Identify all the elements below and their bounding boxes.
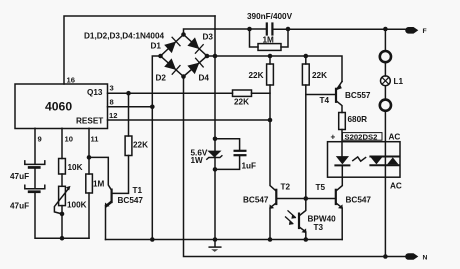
svg-text:1uF: 1uF: [242, 162, 257, 171]
resistor 10K: [59, 159, 66, 175]
LED in opto: [335, 156, 349, 165]
node cap right: [286, 27, 291, 32]
svg-text:12: 12: [109, 111, 117, 120]
transistor T2 BC547: [269, 190, 276, 240]
capacitor 390nF plates: [267, 24, 273, 35]
node gnd bridgeleft: [150, 237, 155, 242]
wire pin 11 to 1M: [88, 128, 90, 174]
svg-text:D3: D3: [203, 33, 214, 42]
node bridge right: [205, 54, 210, 59]
node pin11: [87, 155, 92, 160]
diode D3: [187, 37, 203, 53]
node pin8 junction: [150, 105, 155, 110]
wire VCC vertical to + rail and zener chain: [214, 16, 216, 240]
svg-text:T1: T1: [133, 186, 143, 195]
wire connector to lamp: [384, 63, 386, 77]
svg-text:1M: 1M: [263, 36, 275, 45]
svg-text:3: 3: [110, 84, 114, 93]
svg-text:Q13: Q13: [87, 88, 103, 97]
svg-text:T3: T3: [314, 223, 324, 232]
svg-text:390nF/400V: 390nF/400V: [247, 12, 293, 21]
svg-text:BC547: BC547: [118, 196, 144, 205]
wire pin 8: [108, 106, 153, 108]
wire T1 emitter riser: [106, 203, 112, 240]
ground bus right: [106, 239, 343, 241]
wire 1uF bottom jog: [215, 156, 240, 169]
wire pin 12: [108, 119, 271, 121]
resistor 1M parallel loop: [250, 29, 289, 47]
diode D2: [164, 58, 180, 74]
resistor 22K horizontal box: [233, 90, 252, 96]
svg-text:F: F: [423, 28, 427, 35]
capacitor 47uF no1: [25, 161, 45, 169]
resistor 22K vertical 2: [299, 56, 309, 216]
capacitor 47uF no2: [25, 185, 45, 193]
svg-text:T5: T5: [316, 183, 326, 192]
svg-text:10: 10: [65, 135, 73, 144]
phototransistor T3 BPW40: [286, 211, 307, 240]
wire pin 9: [34, 128, 36, 164]
node pin12 junction: [268, 118, 273, 123]
opto squiggle: [353, 157, 366, 161]
wire base T2-T5: [277, 198, 335, 200]
wire LED to T5 collector: [336, 166, 342, 190]
wire pin 10: [61, 128, 63, 158]
svg-text:9: 9: [38, 135, 42, 144]
node N drop: [383, 254, 388, 259]
node bus A pot: [60, 236, 65, 241]
svg-text:T4: T4: [320, 96, 330, 105]
resistor 1M box: [258, 44, 281, 51]
wire + rail: [207, 56, 342, 82]
node gnd T2: [268, 237, 273, 242]
svg-text:47uF: 47uF: [10, 172, 29, 181]
wire F drop to connector: [384, 29, 386, 51]
wire bridge bottom to N rail: [184, 77, 407, 257]
resistor 1M vertical: [86, 174, 93, 193]
svg-text:16: 16: [67, 76, 75, 85]
svg-text:BC557: BC557: [345, 91, 371, 100]
diode D1: [164, 37, 180, 53]
S202DS2 opto-triac box: [328, 142, 401, 178]
diode bridge D1-D4: [161, 35, 208, 77]
transistor T1 BC547: [89, 157, 112, 207]
transistor T4 BC557: [306, 82, 342, 113]
svg-text:D1: D1: [151, 42, 162, 51]
svg-text:BC547: BC547: [243, 196, 269, 205]
svg-text:8: 8: [110, 97, 114, 106]
node 22K2 top: [304, 54, 309, 59]
svg-text:AC: AC: [389, 133, 401, 142]
svg-text:47uF: 47uF: [10, 202, 29, 211]
node gnd zener: [213, 237, 218, 242]
svg-text:100K: 100K: [67, 201, 87, 210]
node zener bottom: [213, 167, 218, 172]
node F drop: [383, 27, 388, 32]
capacitor 1uF plates: [235, 151, 246, 155]
zener diode 5.6V: [207, 151, 222, 160]
node base junction: [304, 196, 309, 201]
wire 47uF to bus A: [35, 193, 89, 238]
ground symbol: [209, 240, 221, 252]
svg-text:22K: 22K: [234, 98, 249, 107]
svg-text:22K: 22K: [133, 141, 148, 150]
node bridge bottom: [181, 74, 186, 79]
label S202DS2: [343, 132, 383, 141]
svg-text:D4: D4: [199, 74, 210, 83]
wire 1M to bus A: [88, 193, 90, 238]
wire bridge left to ground bus: [152, 56, 160, 240]
wire 1uF top jog: [215, 139, 240, 150]
svg-text:4060: 4060: [45, 100, 72, 114]
node gnd T3: [304, 237, 309, 242]
node pot wiper: [60, 212, 65, 217]
svg-text:T2: T2: [281, 183, 291, 192]
svg-text:22K: 22K: [249, 71, 264, 80]
IC 4060 box: [15, 84, 108, 129]
wire pin 3 Q13: [108, 92, 271, 94]
svg-text:D2: D2: [156, 74, 167, 83]
svg-text:680R: 680R: [348, 115, 368, 124]
resistor 680R: [339, 113, 346, 157]
connector circle bottom: [380, 100, 391, 111]
resistor 22K vertical 1: [267, 56, 276, 191]
node zener top: [213, 137, 218, 142]
svg-text:22K: 22K: [312, 71, 327, 80]
wire pin16 VCC top rail: [64, 16, 215, 84]
terminal F: [405, 27, 418, 34]
svg-text:BC547: BC547: [346, 196, 372, 205]
svg-text:10K: 10K: [68, 163, 83, 172]
wire bridge top to mains cap: [184, 29, 267, 35]
node bridge left: [158, 54, 163, 59]
svg-text:1W: 1W: [191, 156, 204, 165]
resistor 22K to T1: [112, 93, 132, 193]
connector circle top: [380, 51, 391, 62]
svg-text:L1: L1: [394, 77, 404, 86]
diode D4: [187, 58, 203, 74]
svg-text:11: 11: [91, 135, 100, 144]
triac in opto: [370, 157, 398, 166]
svg-text:1M: 1M: [93, 180, 105, 189]
wire connector2 to triac and N rail: [384, 111, 386, 257]
svg-text:+: +: [331, 133, 336, 142]
node cap left: [247, 27, 252, 32]
terminal N: [405, 253, 418, 260]
wire lamp to connector2: [384, 86, 386, 100]
lamp L1: [381, 76, 391, 86]
node bridge top: [181, 32, 186, 37]
svg-text:RESET: RESET: [76, 117, 103, 126]
wire cap to F: [274, 28, 408, 30]
potentiometer 100K: [54, 186, 70, 238]
node pin3 to T1: [126, 91, 131, 96]
svg-text:AC: AC: [390, 182, 402, 191]
svg-text:D1,D2,D3,D4:1N4004: D1,D2,D3,D4:1N4004: [84, 32, 165, 41]
transistor T5 BC547: [336, 190, 343, 240]
node 22K1 top: [268, 54, 273, 59]
wire 10K to pot: [61, 174, 63, 186]
wire between 47uF caps: [34, 169, 36, 189]
node + rail at x215: [213, 54, 218, 59]
svg-text:N: N: [423, 254, 428, 261]
svg-text:S202DS2: S202DS2: [345, 132, 378, 141]
